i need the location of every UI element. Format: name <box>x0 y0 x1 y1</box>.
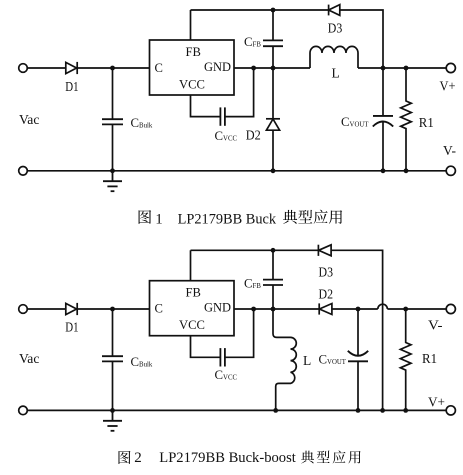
wire: D1 cathode to node C pin <box>76 67 149 69</box>
capacitor CBulk lead bottom <box>112 124 114 170</box>
capacitor CFB plates <box>263 40 283 46</box>
wire: D3 anode to right drop (circuit 2) <box>331 250 383 410</box>
junction: D1/CBulk node <box>110 66 115 71</box>
svg-text:D1: D1 <box>65 320 78 335</box>
wire: input + to D1 anode (circuit 2) <box>27 308 65 310</box>
inductor L (circuit 2) <box>273 309 296 410</box>
svg-text:V-: V- <box>443 143 456 158</box>
svg-text:D2: D2 <box>246 128 261 143</box>
junction: CVOUT node top <box>381 66 386 71</box>
labels circuit 1 <box>19 21 456 159</box>
capacitor CVOUT plates (polarized, circuit 2) <box>348 351 368 362</box>
svg-text:VCC: VCC <box>179 318 205 332</box>
svg-text:L: L <box>303 353 311 368</box>
caption 典型应用 <box>283 210 342 224</box>
wire: CVCC to rail junction (circuit 2) <box>225 309 254 357</box>
diode D1 (circuit 2) <box>66 303 77 315</box>
capacitor CBulk lead bottom (circuit 2) <box>112 361 114 410</box>
diode D1 <box>66 62 77 74</box>
junction: CVCC return on rail <box>251 66 256 71</box>
svg-text:GND: GND <box>204 60 231 74</box>
junction: CVCC return on rail (circuit 2) <box>251 307 256 312</box>
capacitor CVOUT lead top (circuit 2) <box>357 309 359 356</box>
terminal: V- output (circuit 1) <box>446 166 455 175</box>
capacitor CFB lead top <box>272 10 274 40</box>
junction: R1 node top <box>404 66 409 71</box>
capacitor CFB plates (circuit 2) <box>263 280 283 285</box>
capacitor CVCC plates (circuit 2) <box>220 348 225 366</box>
wire: inductor to V+ terminal <box>358 67 446 69</box>
svg-text:V-: V- <box>428 318 443 333</box>
junction: CVOUT on bottom rail <box>381 168 386 173</box>
svg-text:GND: GND <box>204 301 231 315</box>
terminal: V+ output (circuit 2) <box>446 406 455 415</box>
svg-text:D3: D3 <box>328 21 343 36</box>
wire: D2 anode to bottom rail <box>272 130 274 171</box>
svg-text:Vac: Vac <box>19 112 39 127</box>
resistor R1 (circuit 2) <box>400 309 411 410</box>
svg-text:R1: R1 <box>422 351 437 366</box>
capacitor CFB lead top (circuit 2) <box>272 250 274 279</box>
svg-text:Vac: Vac <box>19 351 39 366</box>
svg-text:C: C <box>155 61 163 75</box>
wire: D3 anode to right drop <box>340 10 383 68</box>
wire: GND pin rail to inductor <box>234 67 310 69</box>
wire: bottom rail circuit 2 <box>27 409 446 411</box>
svg-text:LP2179BB Buck: LP2179BB Buck <box>178 211 277 227</box>
svg-text:V+: V+ <box>428 395 445 410</box>
junction: R1 node top (circuit 2) <box>403 307 408 312</box>
capacitor CFB lead bottom <box>272 46 274 68</box>
junction: R1 on bottom rail (circuit 2) <box>403 408 408 413</box>
svg-text:L: L <box>332 66 340 81</box>
wire: input + to D1 anode <box>27 67 65 69</box>
wire: D2 anode to CVOUT node (circuit 2) <box>332 308 378 310</box>
ground symbol (circuit 1) <box>103 171 122 191</box>
capacitor CVOUT lead top <box>382 68 384 116</box>
terminal: V- output (circuit 2) <box>446 304 455 313</box>
svg-text:C: C <box>155 302 163 316</box>
wire: FB pin riser (circuit 2) <box>190 250 192 280</box>
capacitor CFB lead bottom (circuit 2) <box>272 285 274 309</box>
capacitor CBulk lead top (circuit 2) <box>112 309 114 356</box>
diode D2 (circuit 1) <box>266 119 280 130</box>
terminal: Vac input + (circuit 1) <box>19 64 28 73</box>
svg-text:LP2179BB Buck-boost: LP2179BB Buck-boost <box>159 450 296 466</box>
svg-text:R1: R1 <box>419 115 434 130</box>
IC U1 LP2179BB (circuit 2) <box>150 281 235 336</box>
capacitor CBulk plates <box>102 119 123 124</box>
IC U1 LP2179BB (circuit 1) <box>150 40 235 95</box>
capacitor CVOUT lead bottom (circuit 2) <box>357 361 359 410</box>
junction: CFB tap on FB wire <box>271 8 276 13</box>
caption 图 (figure 1) <box>139 210 152 224</box>
wire: FB pin riser <box>190 10 192 40</box>
capacitor CVOUT lead bottom <box>382 122 384 171</box>
terminal: Vac input + (circuit 2) <box>19 305 28 314</box>
wire: D2 vertical top lead <box>272 68 274 119</box>
junction: CVOUT on bottom rail (circuit 2) <box>356 408 361 413</box>
wire: VCC pin to CVCC (circuit 2) <box>191 336 221 358</box>
wire: VCC pin to CVCC <box>191 95 221 117</box>
junction: CBulk/ground on bottom rail <box>110 168 115 173</box>
inductor L (circuit 1) <box>310 46 358 68</box>
wire: D1 cathode to C pin (circuit 2) <box>76 308 149 310</box>
ground symbol (circuit 2) <box>103 410 122 430</box>
wire: hop to V- terminal (circuit 2) <box>387 308 446 310</box>
caption 图 (figure 2) <box>119 451 131 464</box>
junction: R1 on bottom rail <box>404 168 409 173</box>
svg-text:D1: D1 <box>65 79 78 94</box>
wire: CVCC to rail junction <box>225 68 254 117</box>
junction: CFB tap on FB wire (circuit 2) <box>271 248 276 253</box>
svg-text:D3: D3 <box>319 265 334 280</box>
svg-text:VCC: VCC <box>179 78 205 92</box>
labels circuit 2 <box>19 265 445 410</box>
wire hop: rail over right drop (circuit 2) <box>378 304 388 309</box>
diode D2 (circuit 2) <box>319 303 332 314</box>
wire: bottom rail circuit 1 <box>27 170 446 172</box>
capacitor CBulk lead top <box>112 68 114 119</box>
terminal: Vac input - (circuit 2) <box>19 406 28 415</box>
terminal: Vac input - (circuit 1) <box>19 167 28 176</box>
capacitor CVOUT plates (polarized) <box>373 116 393 127</box>
svg-text:V+: V+ <box>440 79 456 94</box>
junction: CFB/D2 node on rail <box>271 66 276 71</box>
svg-text:FB: FB <box>186 45 201 59</box>
junction: L on bottom rail (circuit 2) <box>273 408 278 413</box>
svg-text:2: 2 <box>134 450 142 466</box>
svg-text:FB: FB <box>186 286 201 300</box>
wire: FB top wire to D3 <box>191 9 329 11</box>
capacitor CBulk plates (circuit 2) <box>102 356 123 361</box>
junction: CBulk/ground bottom rail (circuit 2) <box>110 408 115 413</box>
junction: right drop on bottom rail (circuit 2) <box>380 408 385 413</box>
junction: CFB/L node on rail (circuit 2) <box>271 307 276 312</box>
capacitor CVCC plates <box>220 107 225 125</box>
svg-text:D2: D2 <box>319 287 334 302</box>
junction: D2 on bottom rail <box>271 168 276 173</box>
terminal: V+ output (circuit 1) <box>446 63 455 72</box>
svg-text:1: 1 <box>155 211 163 227</box>
resistor R1 (circuit 1) <box>401 68 412 171</box>
wire: GND pin rail to D2 (circuit 2) <box>234 308 319 310</box>
junction: CVOUT node top (circuit 2) <box>356 307 361 312</box>
junction: D1/CBulk node (circuit 2) <box>110 307 115 312</box>
caption 典型应用 <box>301 450 361 463</box>
diode D3 (circuit 1) <box>329 5 340 16</box>
wire: FB top wire to D3 (circuit 2) <box>191 249 319 251</box>
diode D3 (circuit 2) <box>318 245 331 256</box>
